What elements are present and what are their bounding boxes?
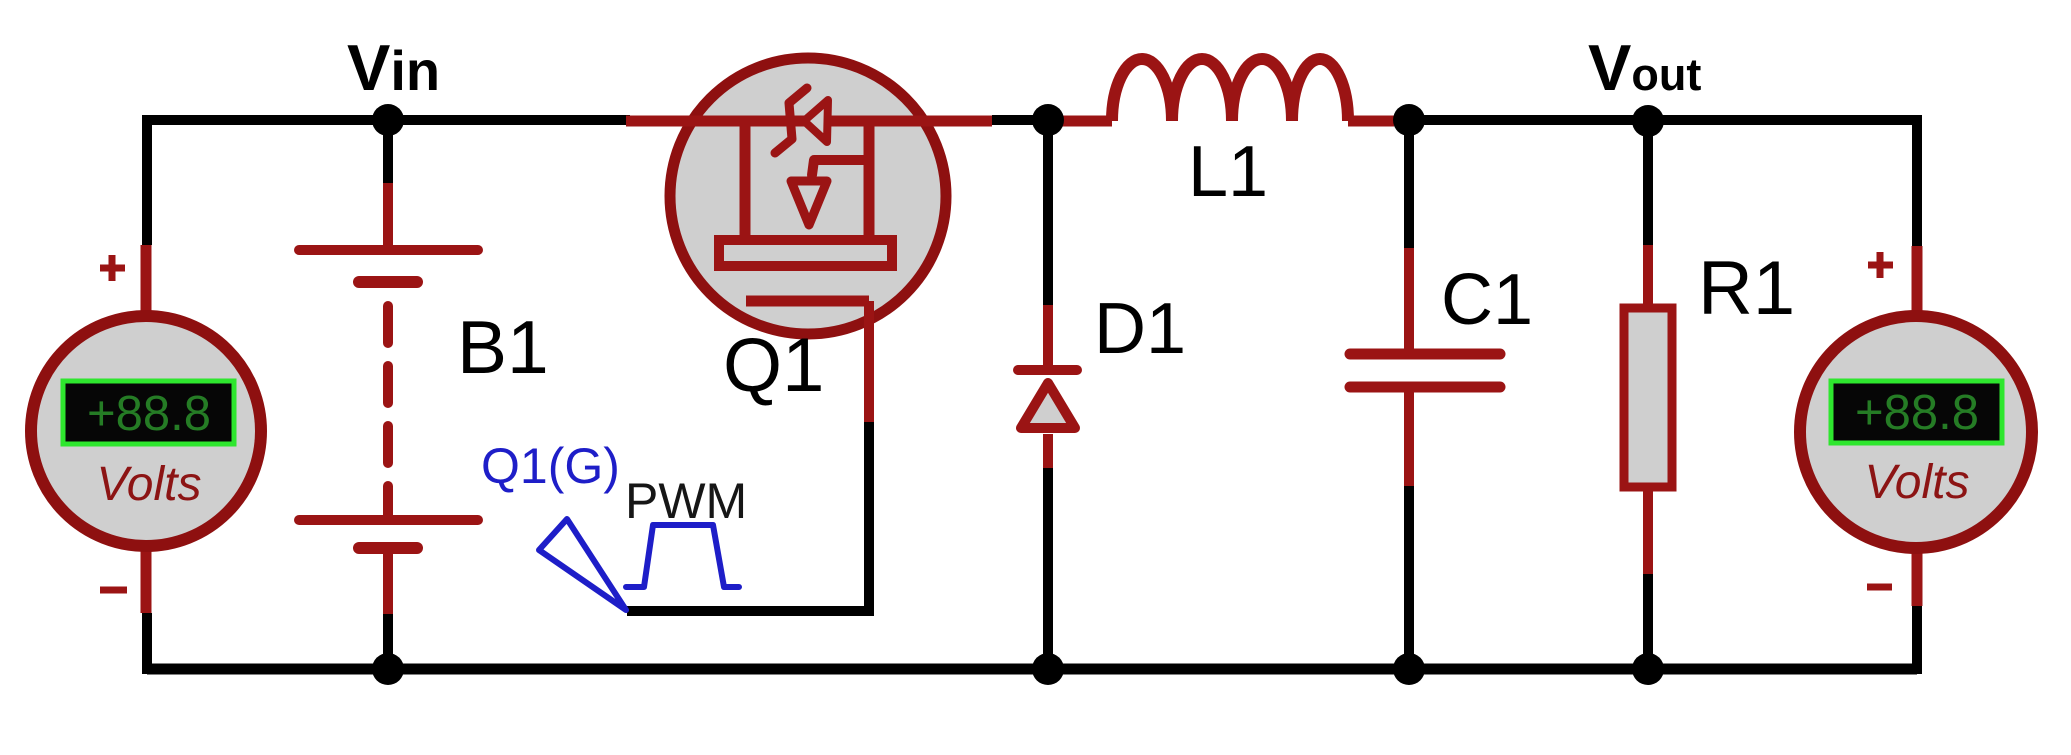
svg-text:R1: R1 bbox=[1698, 246, 1795, 331]
wire red stub before L1 bbox=[1050, 116, 1112, 127]
node D1 bottom junction bbox=[1032, 653, 1064, 685]
Q1 substrate step wire bbox=[812, 160, 869, 175]
label Vout bbox=[1588, 31, 1701, 104]
wire left rail vertical bbox=[146, 115, 147, 674]
resistor R1 bbox=[1624, 120, 1672, 669]
svg-text:L1: L1 bbox=[1188, 132, 1268, 212]
label R1 bbox=[1698, 246, 1795, 331]
label L1 bbox=[1188, 132, 1268, 212]
label Vin bbox=[347, 31, 440, 104]
voltmeter VM1 (input) bbox=[31, 316, 261, 546]
wire top rail left black bbox=[147, 115, 630, 125]
PWM waveform bbox=[626, 525, 739, 587]
diode D1 bbox=[1018, 120, 1077, 669]
svg-text:Volts: Volts bbox=[97, 458, 202, 511]
svg-text:Volts: Volts bbox=[1865, 456, 1970, 509]
wire red stub after L1 bbox=[1348, 116, 1394, 127]
node Vout junction bbox=[1632, 105, 1664, 137]
wire bottom rail black bbox=[147, 664, 1917, 675]
svg-text:B1: B1 bbox=[457, 305, 549, 389]
battery B1 bbox=[299, 120, 478, 669]
label B1 bbox=[457, 305, 549, 389]
inductor L1 bbox=[1112, 59, 1348, 121]
svg-text:+88.8: +88.8 bbox=[1855, 386, 1979, 440]
svg-text:PWM: PWM bbox=[625, 473, 747, 529]
Q1 body diode bbox=[775, 88, 828, 153]
plus sign VM1 bbox=[100, 255, 125, 281]
plus sign VM2 bbox=[1868, 252, 1893, 278]
label PWM bbox=[625, 473, 747, 529]
svg-text:D1: D1 bbox=[1094, 289, 1186, 369]
Q1 substrate arrow bbox=[791, 181, 827, 225]
svg-text:+88.8: +88.8 bbox=[87, 387, 211, 441]
node Vin junction bbox=[372, 104, 404, 136]
label Q1(G) bbox=[481, 438, 620, 494]
label C1 bbox=[1441, 260, 1533, 340]
node switch junction (D1 top) bbox=[1032, 104, 1064, 136]
node C1 bottom junction bbox=[1393, 653, 1425, 685]
svg-text:Vin: Vin bbox=[347, 31, 440, 104]
minus sign VM2 bbox=[1867, 584, 1892, 591]
svg-text:Q1: Q1 bbox=[723, 323, 824, 408]
capacitor C1 bbox=[1350, 120, 1500, 669]
wire top rail black to L1 bbox=[992, 115, 1050, 125]
wire top rail red through Q1 bbox=[626, 116, 992, 127]
wire right rail vertical bbox=[1912, 115, 1922, 674]
wire top rail right black bbox=[1394, 115, 1917, 125]
svg-text:Q1(G): Q1(G) bbox=[481, 438, 620, 494]
transistor Q1 (p-MOSFET in circle) bbox=[666, 58, 951, 334]
node R1 bottom junction bbox=[1632, 653, 1664, 685]
label Q1 bbox=[723, 323, 824, 408]
PWM source V1 cone bbox=[539, 519, 626, 610]
node C1 top junction bbox=[1393, 104, 1425, 136]
voltmeter VM2 (output) bbox=[1800, 316, 2032, 548]
node B1 bottom junction bbox=[372, 653, 404, 685]
svg-text:C1: C1 bbox=[1441, 260, 1533, 340]
wire Q1 gate lead bbox=[627, 301, 869, 611]
minus sign VM1 bbox=[100, 587, 127, 594]
label D1 bbox=[1094, 289, 1186, 369]
